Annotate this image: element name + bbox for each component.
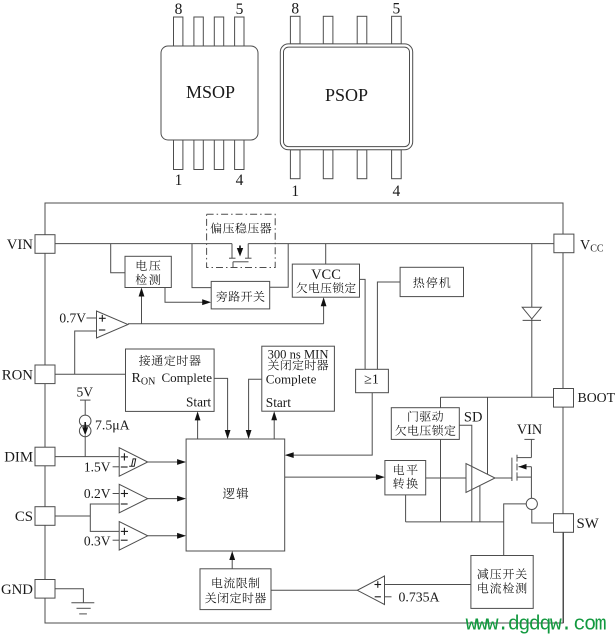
pin RON [2,365,55,384]
svg-text:4: 4 [236,172,244,189]
wire logic to on-timer Start [197,414,199,439]
label Start (on-timer) [186,395,211,410]
label bias regulator 偏压稳压器 [211,222,272,233]
svg-text:≥1: ≥1 [364,373,379,388]
label 300 ns MIN [268,347,329,361]
wire CS net to 0.3V plus input [90,516,119,531]
comparator 1.5V (DIM) [119,448,148,477]
wire VCC UVLO output to OR gate [360,279,366,369]
svg-text:DIM: DIM [4,450,33,466]
block on-timer 接通定时器 [126,349,215,411]
wire comparator output up to VCC UVLO [323,300,325,324]
arrow into voltage-detect bottom [139,288,145,297]
svg-text:5V: 5V [77,385,94,400]
pin VIN [7,235,55,254]
wire VIN rail to voltage-detect block [111,244,125,273]
wire on-timer Complete to logic [214,378,228,436]
wire 0.3V comparator output to logic [148,535,183,537]
svg-text:Start: Start [266,395,291,410]
label 电流检测 [478,582,526,593]
MSOP pin number 8 [175,1,183,18]
block gate drive UVLO 门驱动/欠电压锁定 [391,408,459,440]
label 减压开关 [477,568,526,579]
wire SD net (crosses driver) [459,425,472,522]
arrow into VCC UVLO bottom [321,297,327,306]
block buck switch current detect 减压开关/电流检测 [471,556,533,609]
arrow into bypass switch [202,299,211,305]
wire bypass switch output to VIN rail [270,244,289,288]
watermark www.dgdqw.com [466,614,606,637]
arrow into level shift [376,474,385,480]
svg-text:VCC: VCC [311,267,341,283]
block bypass switch 旁路开关 [211,281,270,309]
label RON Complete [132,370,213,388]
pin BOOT [554,389,616,408]
svg-text:0.7V: 0.7V [59,311,86,326]
wire voltage-detect to bypass switch [165,288,208,303]
comparator 0.735A (current limit, points left) [357,576,384,605]
svg-text:0.735A: 0.735A [399,589,440,604]
svg-text:0.3V: 0.3V [84,533,111,548]
pin SW [554,514,599,533]
arrow into logic right edge (shutdown) [285,452,294,458]
label 关闭定时器 (300ns) [268,359,328,370]
pin CS [15,507,55,526]
wire BOOT line down to driver [487,397,489,474]
svg-text:300 ns MIN: 300 ns MIN [268,347,329,361]
svg-text:8: 8 [291,1,299,18]
block 300ns min off-timer [262,346,335,411]
arrow into logic top (on-timer complete) [225,430,231,439]
svg-text:CS: CS [15,509,33,525]
svg-text:1: 1 [291,183,299,200]
PSOP pin number 4 [393,183,401,200]
IC package PSOP (8-pin, double-outline body + pins) [280,16,412,178]
label 欠电压锁定 (gate drive) [395,425,455,436]
wire gate-drive UVLO bottom to rail [440,439,442,522]
label 0.7V [59,311,96,326]
wire VIN rail (bias regulator to VCC pin) [248,243,553,245]
block voltage detection 电压检测 [125,256,171,287]
wire RON pin to on-timer [55,373,126,375]
PSOP pin number 8 [291,1,299,18]
label SD [464,410,483,426]
current source 7.5uA (double circle + arrow) [79,415,91,437]
svg-text:RON: RON [132,371,156,388]
wire BOOT down to gate-drive UVLO [440,397,442,407]
wire driver output to MOSFET gate [495,477,512,479]
svg-text:SD: SD [464,410,483,426]
wire VIN tick to MOSFET drain [530,439,532,457]
wire VIN rail to bypass switch input [192,244,211,288]
wire SW pin to bottom rail [563,532,565,623]
wire BOOT line [441,396,554,398]
svg-text:1.5V: 1.5V [84,459,111,474]
wire level shift output to driver [426,477,466,479]
wire VIN rail (VIN pin to bias regulator) [55,243,232,245]
ground symbol [71,603,94,614]
transistor power MOSFET (buck switch) [512,455,532,499]
wire 0.735A comparator output to current-limit timer [271,589,357,591]
arrow into logic (0.3V comp) [177,533,186,539]
wire 0.2V comparator output to logic [148,498,183,500]
svg-text:BOOT: BOOT [578,390,616,405]
svg-text:8: 8 [175,1,183,18]
wire comparator output up to voltage-detect [141,291,143,324]
current sense circle [526,498,537,509]
svg-text:Complete: Complete [266,371,317,386]
supply tick VIN [524,438,534,440]
IC boundary box [45,203,563,623]
label Start (300ns) [266,395,291,410]
block current-limit off-timer 电流限制/关闭定时器 [200,569,271,610]
svg-text:VIN: VIN [517,422,542,438]
comparator 0.3V (CS high) [119,522,148,551]
comparator 0.2V (CS low) [119,484,148,513]
label 0.735A [385,589,440,604]
wire logic to level shift [285,476,382,478]
PSOP pin number 5 [393,1,401,18]
MSOP pin number 4 [236,172,244,189]
PSOP pin number 1 [291,183,299,200]
svg-text:0.2V: 0.2V [84,486,111,501]
label 7.5uA [95,418,130,433]
block bias regulator (dash-dot boundary) [207,214,276,267]
label 欠电压锁定 [296,282,355,293]
pin DIM [4,447,55,466]
label 检测 [136,274,161,285]
wire CS net to 0.2V minus input [90,504,119,516]
MSOP pin number 1 [175,172,183,189]
label 接通定时器 [139,355,201,366]
label 电流限制 [212,577,259,588]
block logic 逻辑 [186,439,285,551]
wire buck current detect to 0.735A comparator [385,584,471,586]
wire 1.5V comparator output to logic [148,461,183,463]
svg-text:Start: Start [186,395,211,410]
label 转换 [393,478,418,489]
svg-text:5: 5 [236,1,244,18]
svg-text:Complete: Complete [162,370,213,385]
label 1.5V [84,459,119,474]
supply 5V terminal [77,385,94,401]
block VCC UVLO (VCC 欠电压锁定) [292,264,359,297]
label 逻辑 [223,488,248,499]
wire level shift bottom to rail [405,495,407,522]
label 旁路开关 [216,291,264,302]
wire circle to SW pin [532,510,554,524]
wire DIM pin to comparator [55,456,119,458]
wire OR gate output to logic block [288,393,373,455]
wire sense circle to buck current detect [504,504,527,556]
wire current source to DIM net [84,435,86,456]
label 0.3V [84,533,119,548]
svg-text:MSOP: MSOP [186,82,235,102]
wire 300ns Complete to logic [249,379,262,436]
gate OR (&#8805;1) [356,369,389,392]
svg-text:VCC: VCC [580,238,604,255]
svg-text:5: 5 [393,1,401,18]
wire VCC rail down to diode [531,244,533,308]
wire logic to 300ns Start [273,414,275,439]
transistor pass PMOS (bias regulator) [229,244,252,268]
wire 0.7V comparator output [128,323,324,325]
svg-text:RON: RON [2,368,34,384]
wire diode to BOOT line [531,319,533,397]
pin VCC [554,234,604,254]
label VCC [311,267,341,283]
arrow into logic bottom [229,551,235,560]
arrow into logic (0.2V comp) [177,496,186,502]
MSOP pin number 5 [236,1,244,18]
arrow into logic top (300ns complete) [246,430,252,439]
label 关闭定时器 (current limit) [205,592,266,603]
label Complete (300ns) [266,371,317,386]
svg-text:VIN: VIN [7,237,34,253]
pin GND [1,580,55,599]
arrow into 300ns bottom (start) [271,411,277,420]
label 电压 [137,260,161,271]
wire 0.7V comparator minus input from RON net [75,331,97,374]
wire VIN rail down to VCC UVLO [325,244,327,265]
label 门驱动 [408,411,443,422]
label 电平 [394,464,417,475]
label 热停机 [413,277,450,288]
svg-text:SW: SW [577,516,599,532]
svg-text:www.dgdqw.com: www.dgdqw.com [466,614,606,637]
wire current-limit timer to logic [231,554,233,569]
svg-text:PSOP: PSOP [325,85,368,105]
label 0.2V [84,486,119,501]
svg-text:4: 4 [393,183,401,200]
wire gate drive bottom rail [406,521,504,523]
IC package MSOP (8-pin, body + pins) [161,17,258,170]
arrow into logic (1.5V comp) [177,459,186,465]
svg-text:7.5μA: 7.5μA [95,418,130,433]
wire GND pin to ground symbol [55,589,83,603]
svg-text:GND: GND [1,582,33,598]
wire driver bottom to rail [479,486,481,522]
block level shift 电平转换 [385,461,426,495]
diode bootstrap [522,307,541,320]
wire CS pin rail [55,515,90,517]
label VIN (MOSFET drain) [517,422,542,438]
comparator 0.7V (VIN UVLO sense) [97,311,129,338]
svg-text:1: 1 [175,172,183,189]
wire 5V to current source [84,400,86,416]
arrow into on-timer bottom (start) [195,411,201,420]
driver buffer triangle [466,464,495,493]
block thermal shutdown 热停机 [400,267,463,296]
wire thermal shutdown output to OR gate [377,282,400,369]
